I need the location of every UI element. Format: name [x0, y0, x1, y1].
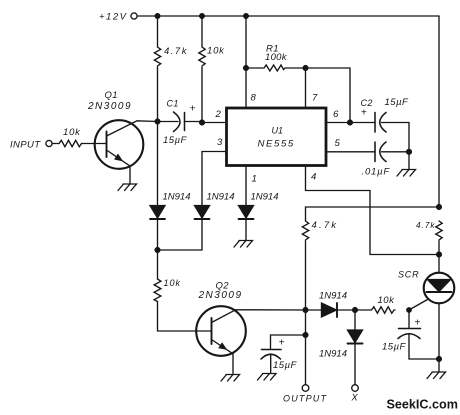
svg-text:+: + — [415, 318, 421, 329]
svg-text:15µF: 15µF — [385, 97, 410, 108]
svg-text:15µF: 15µF — [163, 135, 188, 146]
svg-text:NE555: NE555 — [258, 138, 295, 149]
wire pin 1 — [245, 166, 247, 206]
wire SCR cathode down — [438, 303, 440, 359]
wire right col resistor to SCR — [438, 241, 440, 273]
svg-text:10k: 10k — [164, 278, 182, 288]
svg-text:15µF: 15µF — [273, 360, 298, 371]
capacitor .01uF — [375, 142, 409, 162]
svg-text:+: + — [279, 338, 285, 349]
capacitor 15uF (output) — [261, 350, 281, 373]
svg-text:4.7k: 4.7k — [164, 46, 188, 57]
wire resistor to Q1 base — [82, 143, 107, 145]
node output cap junction — [303, 333, 308, 338]
capacitor 15uF (SCR gate) — [398, 329, 439, 360]
ground (pin 1 diode) — [234, 241, 253, 248]
resistor R1 100k — [246, 65, 302, 71]
resistor 4.7k (right) — [436, 221, 442, 240]
ground (pin 5 filter) — [397, 170, 416, 177]
wire cathode to ground — [438, 359, 440, 372]
node R1 left junction — [244, 66, 249, 71]
node INPUT terminal — [46, 140, 52, 146]
wire to OUTPUT terminal — [305, 335, 307, 385]
wire colB top lead — [201, 16, 203, 47]
wire colA resistor to C1 node — [157, 67, 159, 122]
svg-text:1: 1 — [252, 174, 257, 185]
SCR — [409, 273, 454, 310]
wire colB resistor to pin2 node — [201, 67, 203, 123]
wire input lead — [52, 143, 59, 145]
svg-text:8: 8 — [251, 93, 257, 104]
diode D4 1N914 (horizontal) — [322, 303, 356, 317]
svg-text:+: + — [361, 107, 367, 118]
svg-text:2N3009: 2N3009 — [87, 101, 132, 112]
wire +12V rail — [137, 15, 439, 17]
svg-text:1N914: 1N914 — [251, 192, 279, 203]
wire Q2 collector to node — [236, 309, 306, 311]
svg-text:INPUT: INPUT — [10, 140, 41, 151]
capacitor C1 15uF — [174, 112, 203, 132]
node cathode cap junction — [437, 357, 442, 362]
svg-text:1N914: 1N914 — [207, 192, 235, 203]
svg-text:2N3009: 2N3009 — [198, 290, 243, 301]
node gate cap junction — [407, 308, 411, 312]
svg-text:OUTPUT: OUTPUT — [283, 393, 328, 403]
transistor Q1 2N3009 — [95, 120, 158, 183]
node R1 right junction — [303, 66, 308, 71]
node diode junction — [353, 308, 358, 313]
node +12V terminal — [131, 13, 137, 19]
svg-text:10k: 10k — [378, 295, 396, 306]
svg-text:SeekIC.com: SeekIC.com — [387, 398, 458, 412]
node junction rail x202 — [200, 14, 205, 19]
wire pin 5 — [327, 151, 376, 153]
wire C2 right down to pin5 node — [408, 123, 410, 152]
svg-text:C1: C1 — [167, 99, 179, 109]
wire colA junction to 10k — [157, 250, 159, 279]
svg-text:7: 7 — [312, 93, 318, 104]
node right col upper junction — [437, 205, 442, 210]
svg-text:1N914: 1N914 — [163, 192, 191, 203]
wire pin 3 elbow — [202, 152, 227, 206]
wire output cap branch — [271, 335, 306, 349]
diode D1 1N914 — [150, 206, 165, 251]
svg-text:4: 4 — [311, 171, 316, 182]
svg-text:2: 2 — [215, 109, 222, 120]
svg-text:C2: C2 — [361, 98, 373, 108]
svg-text:.01µF: .01µF — [362, 167, 391, 178]
wire R1 node to pin6 node — [306, 68, 351, 123]
wire colA top lead — [157, 16, 159, 47]
node X terminal — [352, 385, 359, 392]
svg-text:10k: 10k — [63, 127, 81, 138]
svg-text:10k: 10k — [207, 46, 225, 57]
node junction rail x246 — [244, 14, 249, 19]
svg-text:+: + — [190, 103, 196, 115]
diode D2 1N914 — [195, 206, 210, 220]
wire C1 left lead — [158, 121, 179, 123]
ground (SCR cathode) — [427, 372, 446, 379]
wire colB diode D2 bottom to junction — [158, 219, 203, 250]
ground (output cap) — [258, 374, 277, 381]
node pin6 junction — [348, 120, 353, 125]
wire gate cap lead — [408, 310, 410, 328]
resistor 10k (gate) — [355, 307, 395, 313]
svg-text:X: X — [351, 393, 359, 403]
svg-text:1N914: 1N914 — [319, 349, 347, 360]
resistor 4.7k (middle) — [302, 221, 308, 240]
wire pin 4 run — [306, 166, 440, 255]
wire colA down to diode D1 — [157, 122, 159, 206]
wire pin 6 — [327, 122, 376, 124]
svg-text:1N914: 1N914 — [319, 290, 347, 301]
transistor Q2 2N3009 — [196, 306, 246, 373]
diode D3 1N914 — [239, 206, 254, 241]
svg-text:6: 6 — [333, 109, 339, 120]
wire colC pin8 from rail — [245, 16, 247, 108]
wire pin5 node to ground — [408, 152, 410, 169]
svg-text:4.7k: 4.7k — [416, 221, 435, 230]
wire collector node to cap node — [305, 310, 307, 335]
wire pin 7 — [305, 68, 307, 108]
svg-text:U1: U1 — [272, 126, 284, 136]
svg-text:4.7k: 4.7k — [312, 220, 339, 231]
wire 10k to Q2 base — [158, 302, 212, 332]
node OUTPUT terminal — [302, 385, 309, 392]
IC U1 NE555 box — [227, 108, 327, 166]
node SCR anode junction — [437, 252, 442, 257]
svg-text:3: 3 — [217, 137, 223, 148]
node C1 left junction — [155, 119, 160, 124]
wire right column from rail — [438, 16, 440, 207]
ground (Q1 emitter) — [118, 184, 137, 191]
wire mid 4.7k top elbow — [306, 207, 440, 221]
wire diode D4 anode lead — [306, 309, 322, 311]
svg-text:100k: 100k — [265, 52, 288, 63]
wire pin 2 — [202, 122, 227, 124]
ground (Q2 emitter) — [221, 375, 240, 382]
resistor 4.7k (top left) — [154, 47, 160, 66]
node junction rail x157 — [155, 14, 160, 19]
diode D5 1N914 (to X) — [348, 310, 363, 385]
wire mid column to collector node — [305, 241, 307, 310]
svg-text:Q1: Q1 — [105, 90, 118, 101]
resistor 10k (top) — [199, 47, 205, 66]
svg-text:SCR: SCR — [398, 270, 419, 280]
node junction diodes bottom — [155, 248, 160, 253]
node Q2 collector junction — [303, 308, 308, 313]
svg-text:15µF: 15µF — [382, 342, 407, 353]
svg-text:+12V: +12V — [99, 12, 128, 23]
resistor 10k (input) — [59, 140, 81, 146]
node pin2 junction — [200, 120, 205, 125]
resistor 10k (left lower) — [154, 279, 161, 302]
node pin5 junction — [407, 149, 412, 154]
svg-text:5: 5 — [335, 138, 341, 149]
capacitor C2 15uF — [375, 113, 409, 133]
